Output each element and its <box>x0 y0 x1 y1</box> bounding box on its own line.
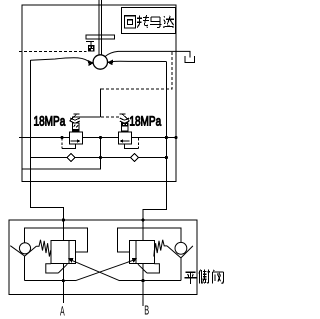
svg-text:A: A <box>60 304 65 319</box>
CB1 pilot loop <box>46 264 68 273</box>
check valve CV1 left <box>10 243 36 281</box>
wire line B vertical <box>143 62 166 221</box>
label box 回转马达 <box>122 8 176 34</box>
pilot cross line to CB1 <box>69 259 119 280</box>
tank symbol <box>185 56 195 62</box>
balance valve block outer box <box>9 220 197 295</box>
check valve diamond 2 <box>130 153 138 161</box>
arrow into motor right <box>107 60 113 66</box>
dashed wire to valve2 top <box>101 116 120 118</box>
spring left <box>36 240 51 257</box>
CB2 pilot loop <box>138 264 160 273</box>
wire line A vertical <box>31 60 64 220</box>
dashed brake pilot line <box>19 51 87 53</box>
relief valve V2 <box>119 114 132 144</box>
case drain to tank <box>105 51 190 57</box>
junction dots bottom <box>62 218 65 221</box>
V2 pilot loop <box>124 138 138 148</box>
wire port A to motor <box>31 58 91 63</box>
relief valve V1 <box>70 114 83 144</box>
wire B out of valve to port <box>142 264 144 306</box>
wire B into block <box>142 220 144 240</box>
V1 pilot loop <box>62 138 76 148</box>
wire bottom pilot right <box>120 280 181 282</box>
svg-text:B: B <box>144 303 149 318</box>
check valve diamond 1 <box>67 153 75 161</box>
label 回转马达 <box>125 15 175 28</box>
wire bottom pilot left <box>25 280 76 282</box>
arrow into motor left <box>88 60 94 66</box>
wire relief gallery vertical <box>100 89 102 118</box>
label 平衡阀 <box>184 270 223 284</box>
svg-text:18MPa: 18MPa <box>129 113 161 128</box>
wire left bypass branch <box>25 228 88 252</box>
wire port B to motor <box>112 60 167 63</box>
counterbalance valve CB2 body <box>130 240 155 263</box>
motor mount bar <box>86 35 114 39</box>
wire right bypass branch <box>118 228 181 252</box>
wire A out of valve to port <box>62 264 64 303</box>
dashed drain link <box>101 52 172 89</box>
motor shaft <box>98 0 100 55</box>
wire valve1 top <box>72 116 101 118</box>
junction dots top <box>60 136 63 139</box>
check valve CV2 right <box>167 242 193 280</box>
svg-text:18MPa: 18MPa <box>34 113 66 128</box>
counterbalance valve CB1 body <box>51 240 76 263</box>
wire main valve line <box>19 137 70 139</box>
wire mid drain vertical <box>22 138 101 170</box>
wire check line <box>31 157 167 159</box>
motor block outer box <box>22 5 176 182</box>
motor M1 <box>93 55 107 69</box>
pilot cross line to CB2 <box>75 259 135 280</box>
brake piston <box>86 41 94 51</box>
wire A into block <box>62 220 64 240</box>
spring right <box>154 240 167 257</box>
